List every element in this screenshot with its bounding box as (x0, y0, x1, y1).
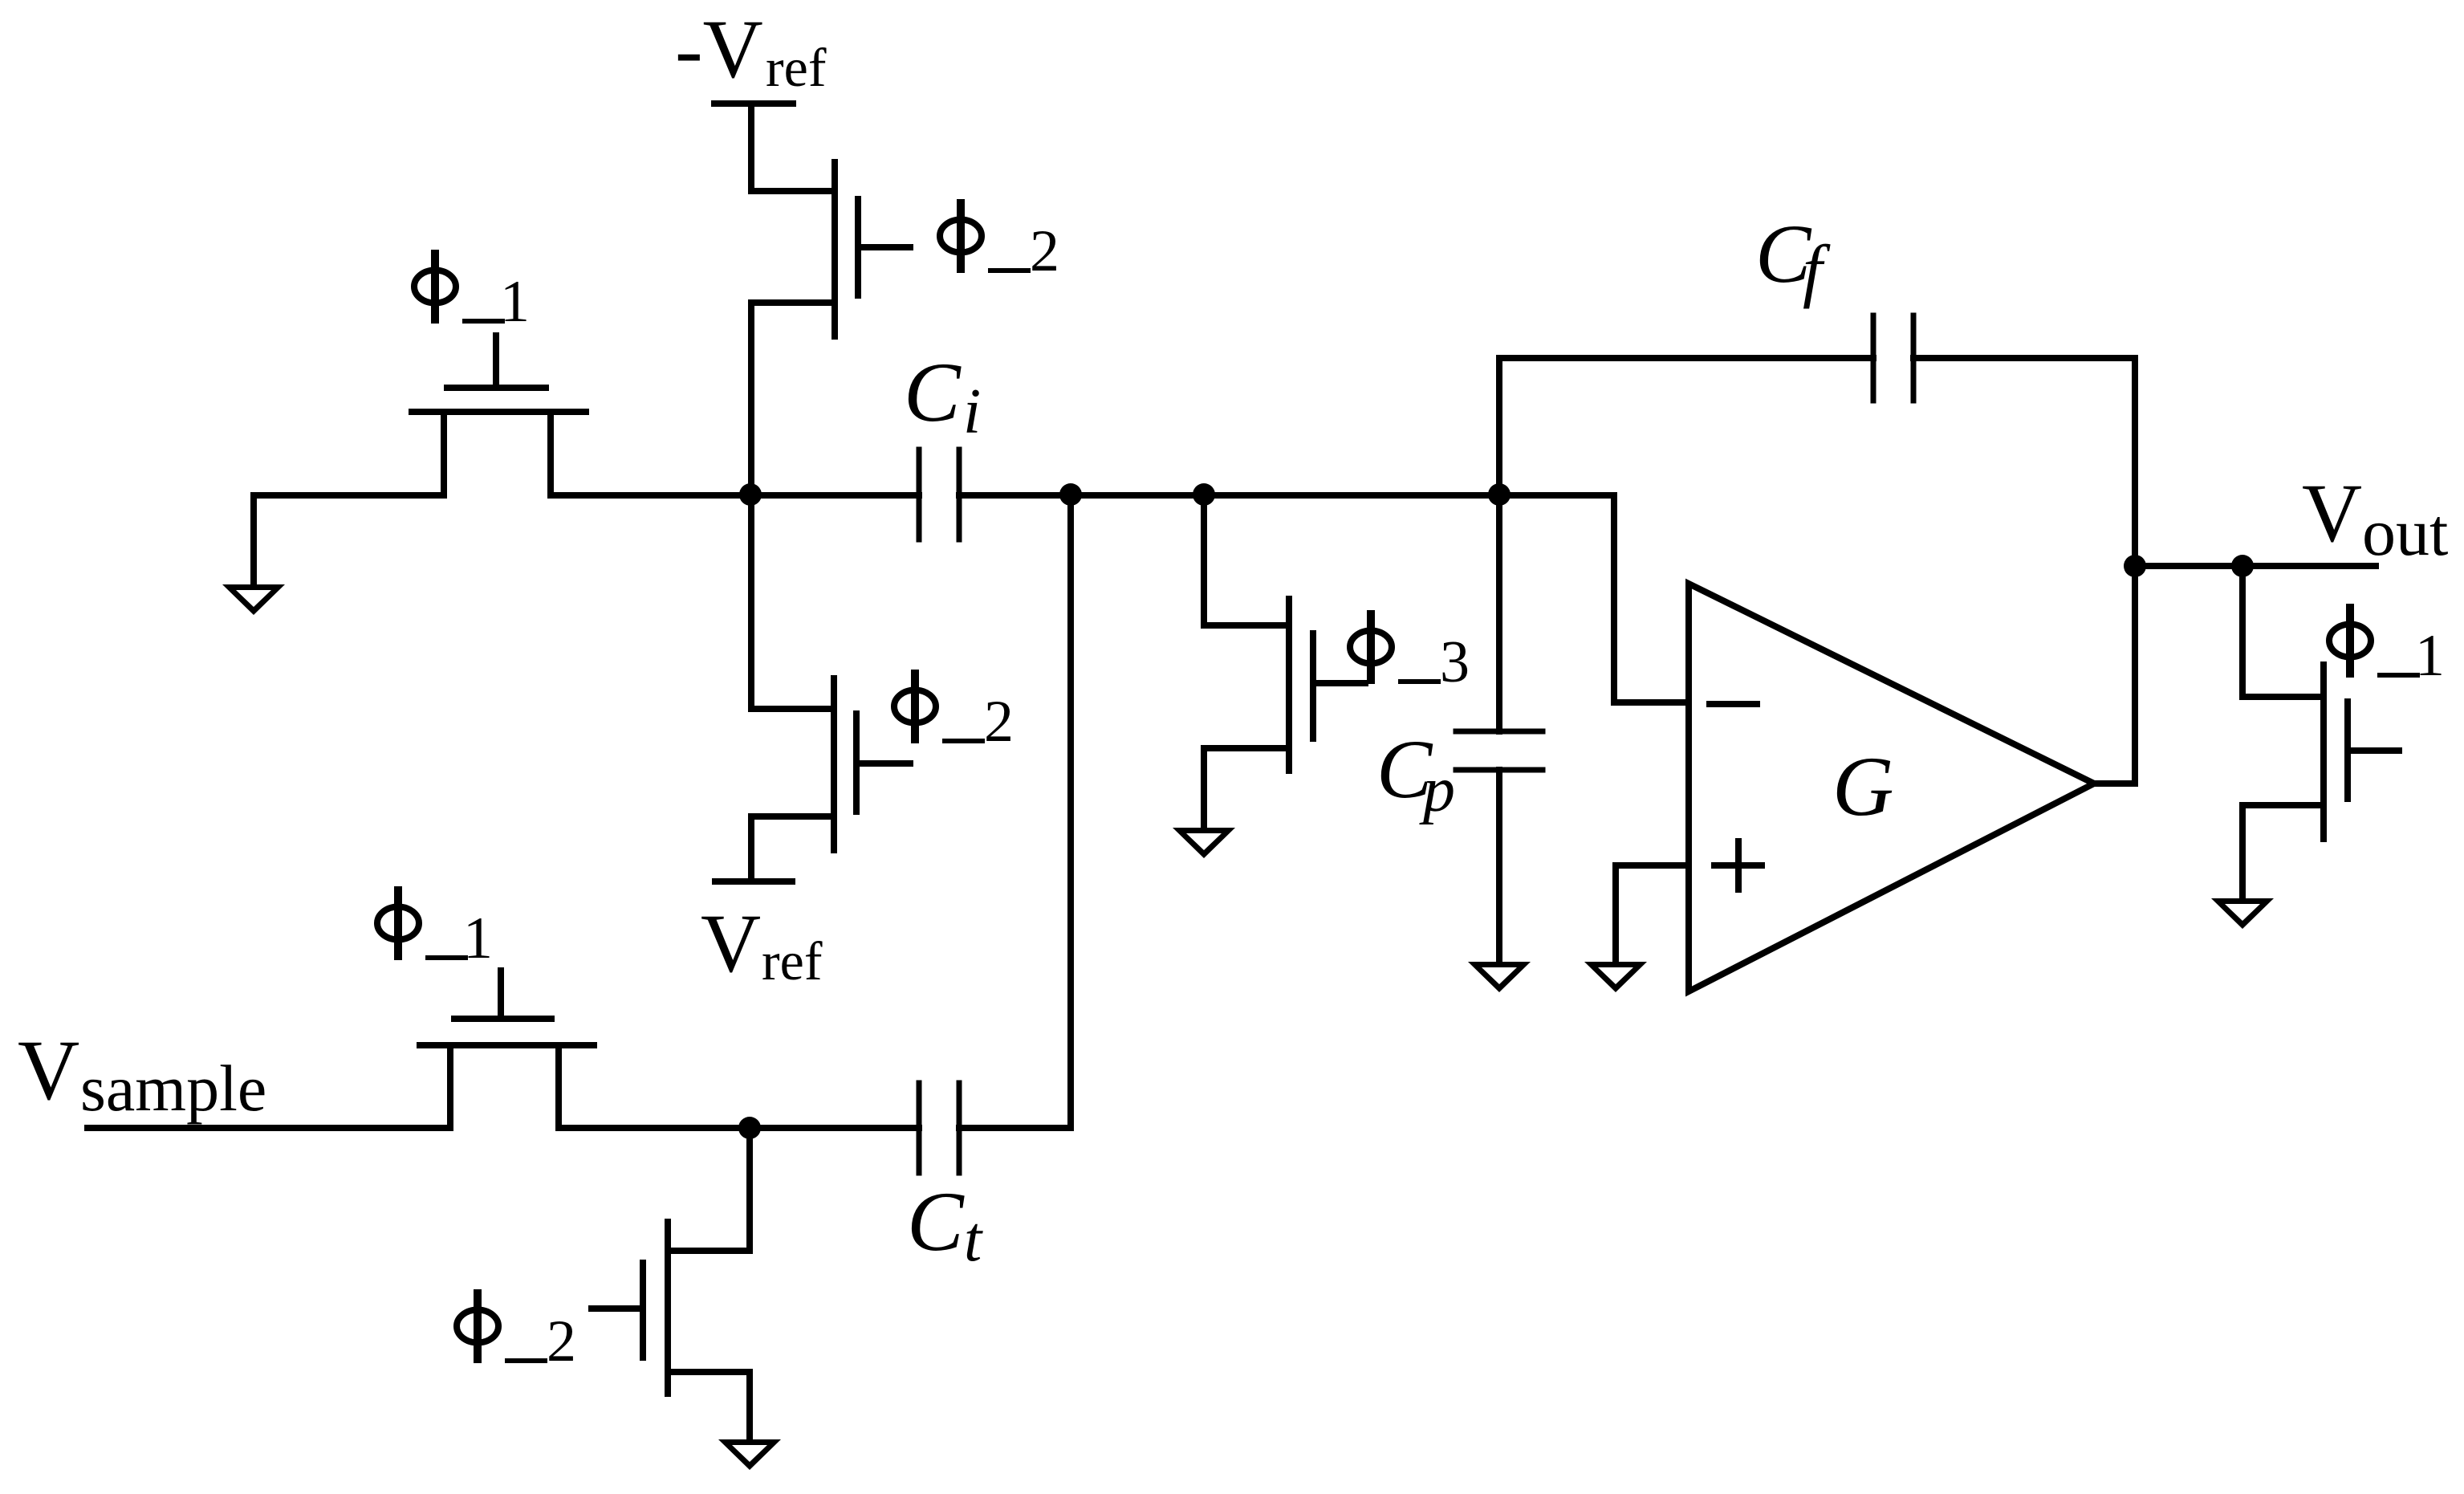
svg-text:2: 2 (984, 689, 1014, 755)
svg-text:G: G (1832, 739, 1894, 833)
transistor M7 (switch phi_2 to ground) (592, 1222, 750, 1394)
ground at non-inverting input (1584, 962, 1647, 992)
label phi_1 of M5 (2329, 608, 2445, 689)
svg-text:t: t (964, 1204, 983, 1275)
transistor M1 (switch phi_1, top left) (412, 336, 586, 495)
label Vref (701, 898, 823, 991)
svg-text:-V: -V (675, 3, 763, 96)
wire node B from Ci to op-amp input corner (959, 492, 1614, 499)
wire -Vref down to M2 source (748, 104, 754, 191)
node out junction dot on feedback vertical (2124, 555, 2146, 577)
label phi_2 of M3 (894, 674, 1014, 755)
wire Cp bottom plate down to ground (1496, 770, 1502, 964)
transistor M6 (switch phi_1 sampling) (420, 971, 594, 1128)
wire node C from M6 to Ct (559, 1125, 919, 1131)
label -Vref (675, 3, 827, 98)
wire node B down to Ct (1067, 495, 1074, 1128)
wire output node to Vout (2135, 563, 2376, 569)
svg-text:ref: ref (766, 37, 827, 98)
svg-text:sample: sample (80, 1052, 266, 1125)
svg-text:V: V (18, 1024, 79, 1118)
wire node B down to Cp top plate (1496, 495, 1502, 731)
node B junction dot at M4 branch (1193, 483, 1215, 506)
wire node A down to M3 drain (748, 495, 754, 709)
label phi_3 of M4 (1350, 614, 1470, 695)
wire feedback vertical at output (2132, 358, 2138, 784)
capacitor Ci (919, 450, 959, 539)
wire feedback top from node B (1499, 358, 1873, 495)
svg-text:V: V (2302, 467, 2362, 560)
wire M5 source down to ground (2239, 805, 2246, 901)
svg-text:ref: ref (762, 930, 823, 991)
node out junction dot at M5 branch (2231, 555, 2254, 577)
label Vsample (18, 1024, 266, 1125)
transistor M2 (switch phi_2 from -Vref) (751, 162, 910, 336)
wire node out down to M5 drain (2239, 566, 2246, 697)
wire M4 source down to ground (1201, 748, 1207, 830)
capacitor Cf (1873, 315, 1913, 401)
svg-text:3: 3 (1440, 629, 1470, 695)
transistor M5 (switch phi_1 at output) (2242, 665, 2399, 839)
svg-text:2: 2 (547, 1309, 576, 1374)
svg-text:1: 1 (2415, 623, 2445, 689)
node B junction dot at Ct branch (1059, 483, 1082, 506)
label Cf (1755, 208, 1831, 310)
ground below M4 (1173, 828, 1235, 858)
op-amp G triangle (1689, 584, 2094, 991)
label phi_1 of M1 (414, 254, 530, 335)
minus sign of inverting input (1710, 701, 1757, 707)
wire M2 drain down to node A (748, 303, 754, 495)
wire node B corner down to inverting input (1611, 495, 1617, 702)
svg-text:2: 2 (1030, 218, 1059, 284)
transistor M4 (switch phi_3 to ground) (1204, 599, 1365, 771)
capacitor Cp (1456, 731, 1543, 770)
svg-text:V: V (701, 898, 761, 990)
svg-text:1: 1 (500, 269, 530, 335)
svg-text:p: p (1419, 755, 1455, 825)
wire M7 source down to ground (746, 1372, 753, 1442)
ground below M7 (718, 1439, 781, 1470)
wire node A horizontal left segment (254, 492, 444, 499)
ground below M5 (2211, 898, 2274, 929)
label Ct (907, 1174, 983, 1275)
svg-text:out: out (2362, 495, 2448, 570)
svg-text:C: C (904, 345, 962, 439)
node C junction dot (738, 1117, 761, 1139)
wire node C down to M7 drain (746, 1128, 753, 1251)
wire op-amp output (2094, 780, 2135, 787)
label Cp (1376, 723, 1455, 825)
ground at left end of node A (222, 495, 285, 615)
wire non-inverting input to ground (1616, 865, 1689, 964)
label Ci (904, 345, 981, 447)
label phi_2 of M7 (457, 1293, 576, 1374)
svg-text:C: C (907, 1174, 965, 1268)
supply Vref terminal bar (715, 878, 792, 885)
ground below Cp (1468, 962, 1531, 992)
plus sign of non-inverting input (1714, 841, 1762, 889)
transistor M3 (switch phi_2 to Vref) (751, 678, 910, 850)
label phi_2 of M2 (940, 203, 1059, 284)
supply -Vref terminal bar (714, 100, 793, 107)
wire into op-amp inverting input (1614, 699, 1689, 706)
wire Ct to node B vertical (959, 1125, 1071, 1131)
svg-text:i: i (963, 377, 981, 447)
wire M3 source down to Vref terminal (748, 816, 754, 881)
capacitor Ct (919, 1083, 959, 1173)
node B junction dot at Cp / Cf branch (1488, 483, 1511, 506)
wire node A from M1 to Ci (551, 492, 919, 499)
node A junction dot at -Vref branch (739, 483, 762, 506)
wire Vsample input (87, 1125, 450, 1131)
wire node B down to M4 drain (1201, 495, 1207, 625)
svg-text:1: 1 (463, 906, 493, 971)
wire Cf to output vertical (1913, 355, 2135, 361)
label phi_1 of M6 (377, 890, 493, 971)
label Vout (2302, 467, 2448, 570)
